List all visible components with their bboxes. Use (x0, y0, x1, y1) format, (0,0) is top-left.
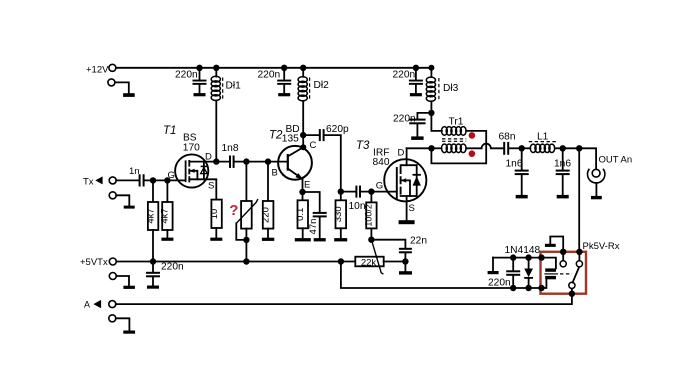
ground of C 220n feed (411, 136, 423, 140)
capacitor C 220n (top, above Dł3) (393, 65, 423, 93)
ground at relay coil top wire (488, 258, 499, 275)
svg-text:220n: 220n (175, 70, 198, 81)
resistor 0.1 (295, 192, 308, 238)
transformer Tr1 (431, 113, 486, 163)
capacitor C 220n (relay) (488, 258, 520, 292)
svg-text:4k7: 4k7 (160, 208, 171, 223)
svg-text:D: D (398, 148, 405, 159)
svg-text:G: G (376, 180, 383, 191)
svg-text:E: E (304, 179, 310, 190)
inductor L1 (522, 131, 566, 152)
ground terminal below +12V (108, 79, 135, 97)
capacitor C 1n8 (222, 143, 239, 168)
svg-text:1n8: 1n8 (222, 143, 239, 154)
ground of 330 (334, 238, 347, 241)
svg-text:?: ? (229, 202, 238, 219)
wire 22k node down to relay coil line (341, 262, 542, 289)
terminal A (84, 299, 116, 309)
choke Dł2 (298, 65, 329, 101)
svg-text:220: 220 (260, 207, 271, 223)
wire Tr1 output with hop (466, 144, 503, 149)
transistor T2 BD135 (269, 124, 317, 190)
capacitor C 68n (499, 132, 525, 155)
svg-text:Dł1: Dł1 (226, 81, 242, 92)
svg-text:Dł2: Dł2 (314, 80, 330, 91)
connector OUT An (587, 155, 632, 200)
transistor T3 IRF840 (356, 140, 426, 214)
resistor 220 (260, 162, 273, 238)
svg-text:220n: 220n (393, 70, 416, 81)
capacitor C 47n (303, 192, 327, 238)
svg-text:Dł3: Dł3 (443, 83, 459, 94)
ground of 10 (210, 238, 222, 241)
svg-text:B: B (272, 168, 278, 179)
wire output down to relay (578, 148, 580, 252)
relay Pk5V-Rx box (541, 241, 620, 294)
svg-text:S: S (208, 181, 214, 192)
svg-text:4k7: 4k7 (145, 208, 156, 223)
svg-text:10: 10 (209, 209, 220, 220)
relay switch (560, 249, 583, 297)
trimmer ? (229, 162, 258, 262)
svg-text:1n: 1n (129, 166, 140, 177)
capacitor C 220n (on +5VTx rail) (146, 262, 184, 286)
svg-text:220n: 220n (258, 70, 281, 81)
svg-text:0.1: 0.1 (295, 208, 306, 221)
ground of 1n6 second (557, 195, 569, 199)
capacitor C 220n (above Dł2) (258, 65, 292, 93)
wire T1 drain node (206, 158, 229, 164)
wire Dł3 to Tr1 node (428, 101, 434, 116)
terminal +12V (86, 64, 116, 75)
capacitor C 220n (at Tr1 feed node) (393, 113, 431, 136)
svg-text:OUT An: OUT An (599, 155, 633, 166)
svg-text:T1: T1 (163, 125, 176, 137)
svg-text:220n: 220n (161, 262, 184, 273)
wire output node (563, 145, 596, 169)
ground above relay (545, 237, 563, 252)
svg-text:22n: 22n (410, 236, 427, 247)
ground of 220 (262, 238, 274, 241)
svg-text:620p: 620p (326, 124, 349, 135)
resistor 4k7 (to +5VTx) (145, 180, 158, 261)
ground of 4k7 (161, 238, 173, 241)
svg-text:A: A (84, 299, 90, 309)
resistor 330 (333, 188, 346, 238)
ground of 1n6 first (516, 195, 528, 199)
svg-text:68n: 68n (499, 132, 516, 143)
wire 1n8 to T2 base (235, 158, 288, 164)
capacitor C 1n6 (second) (554, 148, 571, 195)
ground of 0.1 (295, 238, 311, 241)
ground of C 220n top-right (410, 93, 422, 96)
wire T3 drain (407, 145, 435, 151)
capacitor C 22n (399, 236, 427, 272)
svg-text:+5VTx: +5VTx (80, 257, 108, 268)
svg-text:330: 330 (333, 206, 344, 222)
ground of C 220n top-left (194, 93, 206, 96)
diode 1N4148 (505, 245, 541, 291)
svg-text:135: 135 (282, 134, 299, 145)
svg-text:+12V: +12V (86, 64, 109, 75)
terminal Tx (83, 176, 116, 187)
svg-text:170: 170 (183, 143, 200, 154)
svg-text:Pk5V-Rx: Pk5V-Rx (583, 241, 620, 252)
capacitor C 620p (303, 124, 349, 192)
svg-text:22k: 22k (361, 257, 377, 268)
wire Dł1 to T1 drain (215, 101, 217, 162)
wire 10n to T3 gate (361, 188, 397, 194)
resistor 10 (209, 200, 222, 238)
ground of T3 source (399, 220, 415, 224)
ground of 22n (399, 271, 412, 274)
transistor T1 BS170 (163, 125, 214, 192)
resistor 4k7 (to ground) (160, 180, 173, 237)
wire T3 source to ground (406, 196, 408, 220)
svg-text:220n: 220n (488, 277, 511, 288)
svg-text:840: 840 (373, 157, 390, 168)
wire T1 source (206, 179, 217, 199)
trimmer 22k (355, 240, 405, 275)
ground of C 220n rail (147, 286, 159, 289)
choke Dł1 (211, 65, 241, 101)
svg-text:47n: 47n (308, 219, 319, 235)
svg-text:L1: L1 (537, 131, 549, 142)
wire 1n to T1 gate (145, 177, 186, 183)
capacitor C 1n (129, 166, 145, 187)
ground terminal below +5VTx (109, 273, 135, 289)
svg-text:G: G (168, 170, 175, 181)
capacitor C 220n (top left, at x=199.5) (175, 65, 207, 93)
wire A line to relay common (116, 289, 572, 305)
wire Tx to 1n (116, 179, 138, 181)
svg-text:Tx: Tx (83, 177, 94, 188)
svg-text:100/2: 100/2 (364, 204, 374, 227)
svg-text:T3: T3 (356, 140, 370, 152)
wire T2 emitter (299, 179, 305, 195)
relay mechanical link (dashed) (560, 273, 572, 275)
relay coil (538, 254, 558, 291)
svg-text:Tr1: Tr1 (449, 116, 464, 127)
svg-text:BS: BS (183, 132, 197, 143)
choke Dł3 (426, 65, 458, 102)
svg-text:1N4148: 1N4148 (505, 245, 541, 256)
terminal +5VTx (80, 257, 116, 268)
wire +5VTx rail (116, 258, 355, 264)
capacitor C 10n (341, 186, 366, 212)
ground of C 220n mid (278, 93, 290, 96)
wire +12V rail (116, 67, 432, 69)
ground terminal below A (109, 315, 135, 334)
svg-text:1n6: 1n6 (506, 159, 523, 170)
ground terminal below Tx (109, 192, 135, 209)
svg-text:C: C (310, 140, 317, 151)
resistor 100/2 (364, 192, 377, 243)
wire Dł2 to T2 collector (300, 101, 306, 150)
svg-text:S: S (409, 203, 415, 214)
wire relay coil top (grounded side) (493, 254, 542, 260)
ground of 47n (314, 238, 326, 241)
capacitor C 1n6 (first) (506, 148, 529, 195)
wire 100/2 node to 22n (371, 240, 405, 248)
